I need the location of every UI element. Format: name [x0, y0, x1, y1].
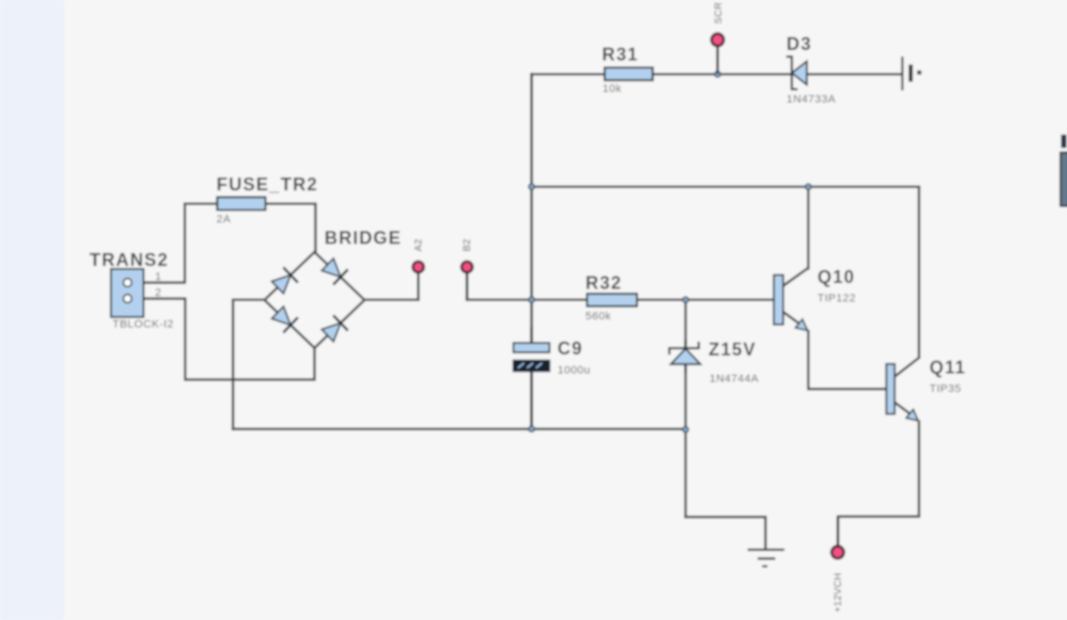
svg-text:+12VCH: +12VCH	[833, 573, 844, 613]
svg-text:FUSE_TR2: FUSE_TR2	[217, 175, 319, 195]
svg-text:Q11: Q11	[930, 358, 967, 378]
svg-text:R31: R31	[602, 45, 639, 65]
svg-text:TIP122: TIP122	[818, 293, 856, 305]
svg-text:1: 1	[155, 271, 162, 283]
bridge diode D-TR	[322, 258, 348, 284]
svg-text:SCR: SCR	[713, 2, 724, 24]
wire top rail R31/D3	[532, 73, 902, 76]
junction node left rail mid	[529, 297, 535, 303]
bridge diode D-TL	[272, 267, 298, 293]
svg-text:560k: 560k	[586, 311, 612, 323]
svg-text:A2: A2	[414, 239, 425, 252]
wire Q10 emitter down to Q11 base	[808, 331, 886, 389]
wire bridge right to A2	[365, 299, 419, 302]
resistor R31	[605, 68, 653, 81]
transistor Q11 lines	[895, 358, 919, 419]
wire Q11 collector vertical	[918, 187, 921, 358]
svg-text:2: 2	[155, 287, 162, 299]
wire bridge left down	[233, 300, 265, 429]
svg-text:Z15V: Z15V	[709, 340, 757, 360]
capacitor C9	[513, 327, 549, 429]
bridge diode D-BR	[322, 315, 348, 341]
svg-text:Q10: Q10	[818, 267, 856, 287]
wire left long vertical upper	[530, 74, 533, 347]
svg-text:D3: D3	[787, 34, 812, 54]
svg-text:C9: C9	[558, 339, 583, 359]
fuse FUSE_TR2	[217, 197, 265, 210]
svg-text:10k: 10k	[603, 83, 622, 95]
transistor Q11 body	[886, 364, 918, 421]
junction node left rail top	[529, 184, 535, 190]
wire TRANS2 pin2 to bridge bottom	[132, 299, 315, 380]
left panel strip	[0, 0, 64, 620]
wire fuse to bridge top	[266, 204, 316, 253]
svg-text:1N4744A: 1N4744A	[710, 373, 760, 385]
terminal node B2	[462, 262, 473, 273]
wire A2 stem	[417, 273, 420, 300]
wire bottom horizontal rail	[233, 428, 686, 431]
svg-text:TRANS2: TRANS2	[90, 250, 169, 270]
terminal pin stems	[418, 46, 837, 547]
edge component partial	[1061, 135, 1067, 207]
wire middle horizontal rail	[532, 186, 919, 189]
terminal node SCR	[711, 34, 723, 46]
junction node Z15V bottom	[683, 427, 689, 433]
junction node Q10 collector	[805, 184, 811, 190]
ground	[748, 550, 785, 567]
diode D3 (zener 1N4733A)	[786, 57, 807, 90]
svg-text:2A: 2A	[217, 214, 232, 226]
svg-text:BRIDGE: BRIDGE	[325, 228, 402, 248]
wire SCR node stem	[716, 46, 719, 74]
svg-text:TBLOCK-I2: TBLOCK-I2	[113, 319, 174, 331]
wire to ground	[686, 517, 766, 548]
bridge diode D-BL	[272, 306, 298, 332]
wire Q10 collector vertical	[807, 187, 810, 269]
svg-text:R32: R32	[586, 273, 623, 293]
wire TRANS2 pin1 to fuse	[132, 204, 217, 283]
transistor Q10 lines	[783, 268, 808, 329]
junction node left rail bottom	[529, 426, 535, 432]
terminal block TRANS2	[111, 269, 144, 317]
resistor R32	[587, 294, 637, 306]
svg-text:B2: B2	[462, 239, 473, 252]
terminal node +12VCH	[832, 546, 844, 558]
wire B2 stem	[466, 273, 469, 300]
wire left long vertical lower	[530, 366, 533, 429]
wire B2 to R32 to Q10 base	[467, 299, 774, 302]
wire Z15V vertical	[684, 300, 687, 517]
junction node at R31/SCR	[715, 71, 721, 77]
svg-text:1N4733A: 1N4733A	[787, 94, 837, 106]
junction node Z15V top	[683, 297, 689, 303]
bridge diamond outline	[265, 252, 365, 348]
transistor Q10 body	[774, 275, 808, 331]
zener diode Z15V	[669, 340, 700, 373]
terminal node A2	[413, 262, 424, 273]
svg-text:1000u: 1000u	[558, 365, 591, 377]
battery terminal B1	[902, 57, 921, 91]
svg-text:TIP35: TIP35	[930, 383, 962, 395]
wire Q11 emitter to +12VCH	[838, 422, 919, 546]
